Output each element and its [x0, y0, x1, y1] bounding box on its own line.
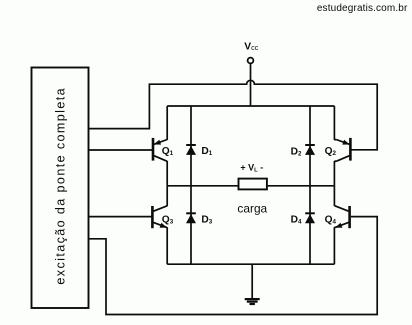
- wire Q2 drive (box to Q2 base, hops over Vcc): [89, 80, 378, 150]
- svg-text:Q4: Q4: [325, 215, 337, 226]
- ground: [245, 264, 260, 304]
- transistor Q3: [152, 186, 173, 264]
- transistor Q4: [325, 186, 350, 264]
- svg-text:Q3: Q3: [162, 215, 174, 226]
- wire Q3 drive: [89, 216, 152, 218]
- load carga: [237, 162, 267, 215]
- svg-text:excitação da ponte completa: excitação da ponte completa: [54, 87, 68, 285]
- svg-text:estudegratis.com.br: estudegratis.com.br: [317, 3, 408, 14]
- transistor Q2: [325, 106, 351, 186]
- svg-text:Q1: Q1: [162, 146, 174, 157]
- wire top rail: [167, 105, 334, 107]
- wire bottom rail: [167, 263, 334, 265]
- svg-text:carga: carga: [237, 201, 267, 215]
- svg-text:D1: D1: [201, 146, 212, 157]
- diode D1: [186, 106, 213, 186]
- wire mid rail (load row): [167, 185, 334, 187]
- svg-text:D3: D3: [201, 215, 212, 226]
- wire Q4 drive (box to Q4 base via bottom): [89, 217, 378, 315]
- diode D2: [291, 106, 315, 186]
- svg-text:Vcc: Vcc: [244, 42, 258, 53]
- svg-text:D4: D4: [291, 215, 302, 226]
- svg-text:Q2: Q2: [325, 146, 337, 157]
- Vcc terminal: [244, 42, 258, 64]
- diode D4: [291, 186, 315, 264]
- svg-text:D2: D2: [291, 146, 302, 157]
- diode D3: [186, 186, 213, 264]
- block excitação da ponte completa: [32, 68, 89, 309]
- svg-text:+ VL -: + VL -: [240, 162, 263, 173]
- wire Q1 drive: [89, 149, 153, 151]
- transistor Q1: [153, 106, 174, 186]
- wire Vcc to top rail: [250, 63, 252, 106]
